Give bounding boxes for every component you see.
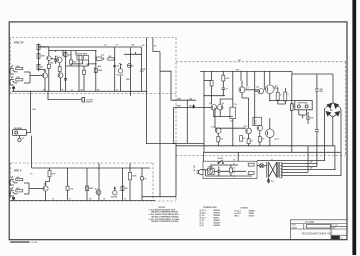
chassis dashed PRE 54 bottom (10, 93, 176, 95)
wire bridge bot tap (334, 146, 336, 170)
svg-text:1K: 1K (41, 66, 44, 68)
resistor R1 (16, 67, 23, 69)
wire R12 lower stem (124, 53, 142, 55)
svg-text:1.5K: 1.5K (70, 188, 74, 190)
resistor R13a (16, 178, 23, 180)
svg-text:4.7K: 4.7K (52, 172, 56, 175)
wire pot P3 arm (114, 187, 116, 191)
wire input frame bottom (174, 142, 204, 144)
svg-text:Q-10: Q-10 (211, 126, 215, 128)
wire upper link row (204, 80, 212, 82)
wire drop col 254 (254, 72, 256, 126)
svg-text:TR-30B: TR-30B (31, 242, 38, 244)
svg-text:25: 25 (71, 89, 73, 91)
svg-text:FB: FB (235, 104, 238, 106)
wire Q2 column lower (59, 63, 61, 67)
svg-text:Q-5: Q-5 (44, 184, 47, 186)
resistor R20 (222, 75, 225, 81)
svg-text:22K: 22K (132, 45, 136, 47)
svg-text:D-1: D-1 (254, 120, 257, 122)
wire ps feed stub (204, 152, 239, 161)
transistor Q1 (42, 73, 47, 78)
title block rev cell (dark) (331, 236, 340, 239)
wire drop col 223 (222, 72, 224, 76)
wire secondary tap 1 (282, 163, 317, 165)
resistor R23 (217, 137, 220, 142)
svg-text:45V: 45V (310, 161, 313, 164)
svg-text:Q-6: Q-6 (95, 188, 98, 190)
reverb output plug (19, 136, 21, 139)
resistor R2 (16, 79, 23, 81)
resistor R6a (47, 64, 50, 68)
wire ps internal top (211, 165, 238, 169)
svg-text:DATE: DATE (332, 227, 336, 230)
svg-text:10: 10 (280, 94, 282, 96)
wire QF leads (217, 133, 219, 145)
svg-text:VOLUME: VOLUME (111, 197, 117, 199)
input jack J2 (10, 76, 18, 85)
chassis dashed PRE 6 left (10, 163, 12, 201)
svg-text:100: 100 (154, 45, 157, 47)
resistor R17 (121, 186, 124, 190)
resistor R25 (258, 137, 261, 142)
resistor R19 (210, 80, 213, 86)
svg-text:VOLUME: VOLUME (117, 75, 123, 77)
potentiometer P2 tone (127, 64, 131, 68)
svg-text:DRAWN: DRAWN (291, 227, 297, 230)
AC plug P1 (199, 170, 204, 175)
svg-text:25MFD 25MFD: 25MFD 25MFD (77, 54, 88, 56)
title block right lower split (331, 234, 347, 236)
wire R15 lower stem (67, 190, 69, 200)
wire secondary tap 2 (282, 166, 317, 168)
wire R17 column (122, 168, 124, 201)
supply rail lower (49, 50, 96, 52)
wire QI top (269, 118, 271, 129)
wire mix row (147, 143, 176, 145)
switch SW1 (219, 160, 223, 163)
svg-text:Q-4: Q-4 (101, 54, 104, 57)
wire drop C3 column (78, 56, 80, 91)
capacitor C10 (222, 88, 225, 89)
chassis dashed PRE 6 right (152, 163, 154, 201)
svg-text:.05: .05 (116, 89, 118, 91)
svg-text:117 VAC: 117 VAC (193, 164, 196, 171)
resistor R8 (70, 60, 73, 64)
wire Q5 emitter (45, 191, 47, 200)
svg-text:.02: .02 (116, 45, 118, 47)
wire input frame left (173, 108, 175, 144)
input jack J1 (10, 65, 18, 74)
wire lamp leads (257, 165, 267, 167)
wire input branch jog (160, 71, 171, 100)
svg-text:250K: 250K (126, 79, 131, 81)
chassis dashed outline PRE 54 left/top (10, 38, 176, 94)
resistor R30 (229, 168, 232, 173)
wire main out vertical (141, 47, 143, 91)
svg-text:.02: .02 (117, 66, 119, 68)
capacitor C2a plates (54, 56, 57, 64)
wire diff emitters (214, 110, 220, 116)
input jack J3 (10, 176, 18, 185)
transistor QI (output) (266, 129, 275, 138)
title block divider right (330, 224, 332, 240)
svg-text:25: 25 (132, 66, 134, 68)
resistor R21 tail (230, 107, 236, 118)
bias network box (253, 117, 262, 125)
supply rail PRE 6 (32, 167, 150, 169)
capacitor C12 (306, 112, 310, 124)
capacitor C8 (140, 177, 144, 181)
potentiometer P1 volume (118, 69, 122, 73)
resistor R27 (284, 92, 287, 101)
svg-text:220: 220 (220, 139, 223, 141)
wire secondary tap 5 (282, 175, 340, 177)
wire drop R9 column (84, 51, 96, 92)
wire coupling row2 (66, 60, 89, 66)
transistor Q4 (97, 57, 102, 60)
svg-text:250K: 250K (132, 176, 137, 178)
input jack J4 (10, 187, 18, 196)
junction arrow input (193, 105, 195, 107)
svg-text:.47: .47 (251, 140, 253, 143)
wire bridge bottom (332, 117, 334, 146)
capacitor C11 (2500MFD) (315, 89, 318, 132)
wire QG leads (248, 134, 250, 146)
svg-text:PRE 6: PRE 6 (14, 169, 22, 173)
svg-text:24V: 24V (142, 44, 145, 47)
transistor Q2 (57, 57, 62, 62)
chassis ground G1 (267, 178, 270, 183)
svg-text:.47: .47 (243, 137, 245, 140)
wire Q7 emitter (242, 93, 249, 128)
transformer T1 secondary (281, 163, 283, 178)
terminal block TB2 (248, 172, 254, 175)
wire ps internal mid (214, 170, 246, 172)
svg-text:TOL 1/64: TOL 1/64 (332, 225, 338, 227)
svg-text:Q-11: Q-11 (243, 126, 247, 128)
wire pot P2 arm (120, 76, 122, 92)
wire mix drop (159, 52, 161, 197)
wire drop col 247 (246, 72, 248, 87)
wire rect col 333 (332, 74, 334, 103)
transistor Q2a (47, 56, 51, 60)
transistor QF (216, 128, 222, 134)
wire Q2a column (48, 47, 50, 92)
wire bridge minus (323, 108, 326, 161)
scanner black strip right edge (352, 0, 356, 255)
svg-text:Q-13: Q-13 (200, 225, 204, 227)
resistor R26 (276, 92, 279, 100)
resistor R15 (66, 186, 69, 190)
resistor R4 (37, 53, 40, 58)
wire Q3 leads (59, 72, 62, 92)
wire cap col 223 lower (222, 81, 224, 96)
potentiometer P3 volume (113, 191, 117, 195)
resistor R22 (240, 136, 243, 142)
wire Q1 collector (39, 70, 46, 73)
svg-text:470K: 470K (41, 54, 46, 57)
wire Q1 emitter (44, 78, 46, 91)
ground bus PRE 54 (12, 90, 147, 92)
transistor Q6 (96, 190, 101, 195)
svg-text:.05: .05 (103, 198, 105, 200)
fuse F1 (208, 168, 215, 174)
svg-text:680: 680 (81, 89, 84, 91)
svg-text:250K: 250K (89, 188, 94, 190)
title block right split (331, 225, 347, 227)
sheet border frame (9, 22, 347, 240)
svg-text:REVERB: REVERB (14, 128, 22, 130)
svg-text:Q-6: Q-6 (222, 103, 225, 105)
wire tap col 308 (307, 146, 309, 173)
svg-text:PL-1: PL-1 (271, 181, 274, 183)
wire R14 column (49, 168, 51, 170)
wire coupling row (71, 51, 76, 67)
transistor QD (258, 89, 263, 94)
wire Q7 collector stem (241, 75, 242, 87)
wire QB collector (220, 99, 233, 105)
ground bus amp (176, 145, 335, 147)
footswitch jack FS1 (82, 97, 85, 102)
wire return drop right (175, 144, 177, 197)
wire drop R7 column (65, 51, 67, 92)
svg-text:FUS 2A: FUS 2A (208, 165, 213, 168)
wire bias row (204, 95, 225, 97)
svg-text:B+: B+ (31, 173, 33, 175)
wire drop col 269 (269, 72, 271, 86)
supply rail amp step (292, 72, 333, 75)
bottom-left sheet note (10, 241, 30, 243)
transistor QE (output) (266, 85, 275, 94)
svg-text:Q-12: Q-12 (275, 139, 279, 141)
ground bus PRE 6 (11, 200, 156, 202)
wire PRE6 output row (142, 196, 176, 198)
svg-text:RCA: RCA (33, 108, 37, 111)
supply rail amp upper (200, 71, 292, 73)
wire Q5 collector (46, 182, 50, 186)
svg-text:250K: 250K (98, 66, 103, 68)
wire jack join vertical (29, 72, 31, 83)
wire secondary tap 3 (282, 169, 335, 171)
svg-text:BR-1: BR-1 (235, 215, 239, 217)
power supply box (203, 161, 257, 178)
svg-text:DIODES: DIODES (241, 207, 249, 209)
supply rail upper (39, 46, 142, 48)
wire QI bottom (269, 138, 271, 146)
wire drop col 264 (264, 72, 265, 90)
svg-text:250K: 250K (98, 70, 103, 72)
wire to Q5 base (29, 188, 43, 190)
wire R15 column (67, 168, 69, 186)
transistor QH (257, 125, 262, 130)
wire ps col r30 (230, 165, 232, 176)
svg-text:5.6K: 5.6K (73, 62, 77, 64)
svg-text:Q-7: Q-7 (246, 88, 249, 90)
reverb tank RT1 (13, 130, 27, 136)
svg-text:28V: 28V (310, 168, 313, 170)
chassis dashed power amp right (345, 62, 347, 156)
svg-text:2N3905: 2N3905 (214, 225, 221, 227)
svg-text:2.2M: 2.2M (41, 47, 45, 49)
junction dots (38, 50, 39, 51)
speaker jack box SPKR (295, 101, 312, 110)
title block top row line (291, 223, 348, 225)
svg-text:SWITCH: SWITCH (86, 101, 93, 103)
wire reverb send vertical (147, 38, 160, 144)
wire bridge plus (339, 108, 342, 176)
wire R14 lower stem (49, 177, 51, 182)
svg-text:1K: 1K (52, 198, 55, 200)
svg-text:4.7K: 4.7K (226, 77, 230, 80)
chassis dashed power amp bottom (176, 155, 346, 157)
title block drawing no box (306, 225, 330, 228)
wire secondary tap 4 (282, 171, 308, 173)
svg-text:.5: .5 (287, 94, 288, 96)
wire amp input lower (174, 107, 211, 109)
resistor R9a (83, 70, 86, 74)
svg-text:2500: 2500 (320, 89, 324, 91)
svg-text:24V: 24V (238, 59, 242, 62)
resistor R14 (48, 170, 51, 176)
capacitor C5 (113, 65, 116, 66)
resistor R28 (291, 104, 294, 111)
svg-text:VE27X: VE27X (249, 215, 256, 217)
transistor QG (246, 128, 252, 134)
title block row line 2 (291, 228, 348, 230)
resistor R9 (94, 68, 97, 73)
svg-text:ON-OFF: ON-OFF (217, 158, 222, 160)
wire C8 lower stem (141, 180, 143, 200)
capacitor C3 (coupling pair) (77, 55, 82, 60)
transformer T1 primary (266, 162, 268, 178)
svg-text:SCALE: SCALE (291, 224, 296, 227)
dashed stub in power supply (233, 159, 235, 178)
chassis dashed power amp top (176, 61, 346, 63)
svg-text:10: 10 (145, 178, 147, 180)
svg-text:Q-5: Q-5 (209, 103, 212, 105)
wire jack4 row (24, 193, 29, 195)
svg-text:100: 100 (262, 139, 265, 141)
resistor R10 (108, 58, 114, 60)
wire reverb drive (27, 91, 31, 132)
wire output node (270, 94, 295, 101)
wire C8 column (141, 168, 143, 176)
svg-text:BR-1: BR-1 (330, 110, 333, 112)
svg-text:100K: 100K (50, 63, 55, 65)
title block outer box (291, 220, 348, 240)
svg-text:UNLESS OTHERWISE STATED: UNLESS OTHERWISE STATED (151, 220, 179, 223)
chassis dashed PRE 6 top (11, 162, 154, 164)
transformer T1 core (278, 162, 279, 178)
svg-text:RT: RT (22, 138, 24, 140)
wire Q2 column (56, 51, 63, 57)
transistor Q3 (58, 73, 63, 78)
wire drop col 241 (240, 72, 242, 76)
resistor R7 (64, 52, 67, 56)
svg-text:C-4: C-4 (104, 44, 107, 47)
wire Q4 base (96, 58, 103, 60)
title block divider left (303, 224, 305, 230)
wire jack1 row (24, 71, 30, 73)
wire drop col 211 (211, 72, 213, 105)
svg-text:470: 470 (89, 197, 92, 200)
wire footswitch stub (48, 91, 82, 99)
svg-text:TRANSISTORS: TRANSISTORS (203, 206, 217, 209)
transistor Q5 (43, 186, 48, 191)
resistor R5 (37, 64, 40, 69)
svg-text:SPKR FUSE: SPKR FUSE (298, 103, 309, 105)
wire drop R12 column (135, 52, 137, 54)
bridge rectifier BR1 (326, 103, 340, 117)
svg-text:1.5K: 1.5K (86, 64, 90, 66)
wire Q6 column (98, 163, 100, 201)
wire R10 to column (113, 58, 116, 60)
resistor R24 (247, 139, 250, 144)
capacitor C4 (coupling pair) (83, 55, 88, 60)
wire col 291 (291, 74, 293, 152)
bus amp lower (204, 151, 341, 153)
svg-text:25: 25 (69, 198, 71, 200)
wire jack join vertical 2 (28, 183, 30, 194)
wire amp input upper (171, 99, 196, 101)
wire reverb return (31, 136, 33, 168)
wire QH stem (259, 131, 261, 146)
wire drop col 232 (232, 72, 234, 146)
resistor R13b (16, 190, 23, 192)
svg-text:Q-2: Q-2 (55, 56, 58, 58)
wire pre6 drop (129, 91, 131, 96)
svg-text:470: 470 (97, 88, 100, 91)
wire tail row (214, 116, 233, 118)
transistor QA (211, 105, 217, 111)
rail stub upper (39, 46, 49, 48)
wire hv row (257, 160, 324, 162)
chassis dashed PRE 6 bottom (11, 200, 177, 202)
wire Q7 base row (245, 89, 258, 91)
bias chain vertical (38, 44, 40, 72)
capacitor C13 (217, 167, 220, 177)
wire Q2 pair link (51, 59, 57, 60)
svg-text:RICKENBACKER INC: RICKENBACKER INC (302, 232, 333, 236)
resistor R18 (129, 172, 132, 179)
wire drop col 204 (203, 72, 205, 153)
svg-text:D-2: D-2 (254, 123, 257, 125)
svg-text:PRE 54: PRE 54 (14, 41, 24, 45)
svg-text:50: 50 (124, 198, 126, 200)
capacitor C2 (64, 79, 67, 80)
wire lower drive (215, 108, 246, 129)
wire jack3 row (24, 182, 29, 184)
transistor QC (239, 87, 245, 93)
wire mid row (71, 63, 96, 65)
svg-text:10K: 10K (125, 188, 129, 190)
transistor QB (217, 105, 223, 111)
resistor R3 (37, 44, 40, 50)
svg-text:1 COND: 1 COND (140, 69, 147, 71)
wire QD base (255, 90, 258, 92)
chassis dashed vertical center (175, 38, 177, 202)
svg-text:SHLD: SHLD (140, 71, 145, 73)
wire drop tone column (130, 47, 132, 91)
resistor R16 (86, 186, 89, 191)
wire drop C5 column (114, 47, 116, 91)
svg-text:1.2K: 1.2K (230, 121, 234, 123)
wire R18 column (129, 163, 131, 172)
wire QE resistor col (274, 88, 285, 104)
svg-text:T-1: T-1 (271, 160, 273, 162)
pilot lamp PL1 (259, 164, 263, 168)
